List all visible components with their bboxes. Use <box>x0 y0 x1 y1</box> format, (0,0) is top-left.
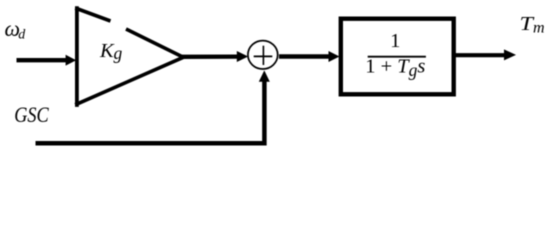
svg-text:m: m <box>533 19 545 36</box>
svg-text:1 + Tgs: 1 + Tgs <box>365 56 425 80</box>
svg-text:GSC: GSC <box>14 102 49 127</box>
svg-text:g: g <box>114 43 123 63</box>
svg-text:1: 1 <box>390 30 400 52</box>
svg-text:d: d <box>18 28 26 43</box>
